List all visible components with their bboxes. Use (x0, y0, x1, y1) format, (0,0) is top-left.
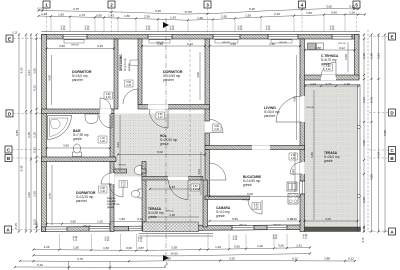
svg-text:2,10: 2,10 (100, 190, 105, 193)
dim row below C.TEHNICA wall (304, 82, 360, 87)
svg-text:4,25: 4,25 (20, 67, 24, 73)
svg-text:2,88: 2,88 (315, 46, 321, 50)
svg-text:4,13: 4,13 (27, 70, 31, 76)
svg-text:HP1,50: HP1,50 (273, 225, 281, 227)
svg-text:0,12: 0,12 (266, 29, 271, 31)
grid bubble B right (368, 155, 396, 162)
room label: TERASA big (324, 151, 340, 163)
svg-text:0,12: 0,12 (187, 42, 193, 46)
svg-text:HP1,00: HP1,00 (83, 226, 91, 228)
dim column left overall (15, 33, 20, 232)
terrace top edge line (305, 84, 361, 86)
wall: interior right (LIVING/BUCATARIE vs TERASA) (300, 39, 305, 232)
terrace bottom edge (305, 227, 361, 232)
room label: C.TEHNICA (321, 54, 339, 66)
svg-text:0,12: 0,12 (349, 5, 355, 9)
wall: DORMITOR2 | LIVING upper (205, 39, 210, 121)
window: DORMITOR1 top (63, 35, 87, 40)
svg-text:1,50: 1,50 (245, 13, 251, 17)
interior dim hol height v (116, 115, 120, 172)
svg-text:0,12: 0,12 (33, 85, 37, 91)
grid bubble C right (368, 147, 396, 154)
eave line above top wall (42, 31, 361, 33)
svg-text:0,12: 0,12 (238, 29, 243, 31)
svg-text:0,70: 0,70 (326, 82, 332, 86)
grid bubble 5 (353, 1, 360, 35)
dim row top outer (37, 4, 359, 15)
svg-text:7,34: 7,34 (377, 152, 381, 158)
door arc: BUCATARIE to terrace (290, 162, 302, 174)
svg-text:6,80: 6,80 (310, 152, 314, 158)
grid bubble 2 (108, 1, 115, 35)
room label: DORMITOR 3 (76, 191, 96, 203)
svg-text:parchet: parchet (72, 78, 83, 82)
window: DORMITOR3 bottom (45, 227, 67, 232)
dim row bottom overall (19, 256, 356, 262)
dim column right mid (370, 33, 374, 232)
svg-text:0,87: 0,87 (138, 246, 144, 250)
window: LIVING top 2 (268, 35, 298, 40)
svg-text:parchet: parchet (76, 199, 87, 203)
door arc: DORMITOR1 (100, 98, 111, 109)
window tick label top x=268 (266, 27, 271, 32)
svg-text:1,43: 1,43 (108, 14, 114, 18)
svg-text:6,02: 6,02 (157, 150, 163, 154)
dim column right fine (362, 33, 366, 232)
section line vertical (165, 18, 167, 258)
room label: BAIE (73, 129, 89, 141)
opening: CAMARA door (250, 196, 263, 200)
svg-text:1,80: 1,80 (119, 217, 125, 221)
svg-text:3,28: 3,28 (33, 191, 37, 197)
svg-text:2,10: 2,10 (193, 188, 198, 191)
interior dim terasa-b width (291, 217, 358, 222)
svg-text:parchet: parchet (163, 78, 174, 82)
svg-text:3,75: 3,75 (77, 257, 83, 261)
interior dim terasa-s width (149, 185, 200, 190)
svg-text:0,12: 0,12 (303, 238, 308, 240)
svg-text:2,48: 2,48 (27, 132, 31, 138)
wall: exterior left (42, 35, 47, 232)
door arc: small TERASA (169, 180, 189, 200)
svg-text:3: 3 (206, 3, 209, 8)
fixture: radiator label box BAIE (98, 136, 107, 143)
svg-text:HP0,90: HP0,90 (156, 42, 164, 44)
wall: DRESSING | DORMITOR2 (138, 39, 142, 105)
svg-text:0,15: 0,15 (13, 32, 18, 35)
axis dashed line x=190 (189, 39, 191, 232)
svg-text:2,40: 2,40 (370, 53, 374, 59)
svg-text:2,10: 2,10 (106, 96, 111, 99)
radiator DORMITOR1 (64, 40, 84, 43)
dim row bottom edge row (14, 263, 165, 269)
svg-text:3,50: 3,50 (63, 144, 69, 148)
svg-text:0,12: 0,12 (137, 217, 143, 221)
opening: BAIE door (100, 109, 111, 114)
svg-text:0,12: 0,12 (138, 241, 143, 243)
door label box: CAMARA (252, 203, 261, 210)
svg-text:5,50: 5,50 (232, 217, 238, 221)
door arc: C.TEHNICA (321, 62, 336, 77)
svg-text:gresie: gresie (107, 205, 115, 209)
svg-text:3,25: 3,25 (229, 256, 235, 260)
svg-text:1,00: 1,00 (100, 140, 105, 143)
door label box: small TERASA (191, 184, 200, 191)
svg-text:3,00: 3,00 (278, 244, 284, 248)
svg-text:2,00: 2,00 (362, 197, 366, 203)
svg-text:9,85: 9,85 (383, 130, 387, 136)
svg-text:HP0,90: HP0,90 (222, 42, 230, 44)
svg-text:1,50: 1,50 (269, 42, 275, 46)
step lines below small terrace (139, 233, 214, 235)
fixture: kitchen sink (287, 182, 297, 191)
svg-text:1,26: 1,26 (257, 244, 263, 248)
interior dim dorm1 height v (48, 55, 52, 105)
svg-text:3,75: 3,75 (48, 193, 52, 199)
interior dim living width (209, 42, 302, 47)
interior dim sbath width (110, 217, 146, 221)
wall: DORMITOR1 | DRESSING (114, 39, 118, 109)
svg-text:1,20: 1,20 (97, 220, 103, 224)
wall: CAMARA top (205, 196, 250, 200)
wall: LIVING bottom (205, 146, 305, 150)
interior dim cteh width (304, 46, 356, 51)
svg-text:0,25: 0,25 (97, 44, 103, 48)
interior dim hol height right (197, 152, 201, 195)
svg-text:2,10: 2,10 (158, 116, 163, 119)
svg-text:1,50: 1,50 (124, 14, 130, 18)
opening: small TERASA door (168, 176, 188, 180)
svg-text:1,26: 1,26 (349, 10, 355, 14)
bottom window tick label x=107 (105, 238, 110, 243)
svg-text:1,43: 1,43 (170, 16, 176, 20)
wall: below C.TEHNICA (300, 75, 359, 80)
door arc: DORMITOR2 (149, 109, 168, 128)
window tick label top x=172 (170, 27, 175, 32)
dim row bottom seg (32, 243, 311, 251)
interior dim dorm2 width (141, 42, 206, 47)
door arc: DORMITOR3 (101, 173, 112, 184)
wall: baie serviciu top (114, 169, 127, 173)
dim column right major (377, 33, 381, 232)
svg-text:0,12: 0,12 (330, 29, 335, 31)
svg-text:0,15: 0,15 (38, 6, 44, 10)
window tick label top x=148 (146, 27, 151, 32)
witness lines top (51, 16, 345, 32)
window tick label top x=240 (238, 27, 243, 32)
door label box: DRESSING (125, 80, 134, 87)
svg-text:HP1,50: HP1,50 (239, 225, 247, 227)
door label box: BUCATARIE terrace (289, 153, 298, 160)
window: DORMITOR2 top (148, 35, 172, 40)
svg-text:gresie: gresie (127, 63, 131, 71)
svg-text:0,12: 0,12 (233, 239, 238, 241)
svg-text:5,00: 5,00 (247, 192, 253, 196)
svg-text:0,12: 0,12 (273, 238, 278, 240)
svg-text:0,15: 0,15 (362, 237, 365, 242)
door label box: DORMITOR2 (156, 112, 165, 119)
svg-text:0,25: 0,25 (35, 222, 39, 228)
svg-text:9,85: 9,85 (15, 130, 19, 136)
svg-text:5: 5 (355, 3, 358, 8)
section arrow bottom (163, 255, 169, 261)
svg-text:1,26: 1,26 (344, 82, 350, 86)
svg-text:3,50: 3,50 (33, 68, 37, 74)
svg-text:1,50: 1,50 (306, 11, 312, 15)
svg-text:gresie: gresie (160, 142, 169, 146)
terrace post bottom (357, 194, 360, 197)
svg-text:3,00: 3,00 (325, 217, 331, 221)
svg-text:1,90: 1,90 (362, 140, 366, 146)
svg-text:0,60: 0,60 (126, 246, 132, 250)
dim column left major (20, 33, 28, 232)
interior dim dorm1 width (46, 44, 116, 50)
room label: DORMITOR 2 (163, 70, 183, 82)
svg-text:gresie: gresie (243, 183, 252, 187)
room label: LIVING (264, 106, 280, 118)
opening: DORMITOR3 door (110, 173, 115, 184)
opening: DORMITOR2 door (148, 104, 168, 109)
svg-text:4,00: 4,00 (196, 72, 200, 78)
svg-text:4,93: 4,93 (293, 96, 297, 102)
svg-text:1,50: 1,50 (73, 246, 79, 250)
svg-text:E: E (390, 35, 393, 40)
wall: small TERASA | CAMARA (203, 180, 208, 227)
svg-text:E: E (8, 37, 11, 42)
wall: DORMITOR1 bottom (42, 109, 115, 114)
interior dim hol width (117, 150, 206, 155)
wall: baie serviciu | small TERASA (142, 162, 146, 228)
floor fill: small TERASA stipple (146, 180, 203, 227)
terrace post top (357, 125, 360, 128)
room label: DORMITOR 1 (72, 70, 92, 82)
interior dim living height v (293, 55, 297, 140)
svg-text:1,26: 1,26 (44, 245, 50, 249)
svg-text:2,10: 2,10 (291, 157, 296, 160)
window: BUCATARIE bottom 1 (232, 225, 254, 230)
svg-text:gresie: gresie (73, 137, 82, 141)
room label: DRESSING (rotated) (119, 54, 131, 71)
opening: LIVING-terrace door (300, 96, 305, 122)
svg-text:0,12: 0,12 (61, 29, 66, 31)
svg-text:gresie: gresie (321, 62, 330, 66)
svg-text:4,93: 4,93 (197, 169, 201, 175)
svg-text:HP0,45: HP0,45 (242, 200, 250, 202)
svg-text:2,28: 2,28 (362, 53, 366, 59)
steps: small terrace bottom hatched (143, 222, 199, 232)
room label: CAMARA (216, 206, 231, 218)
svg-text:2,18: 2,18 (33, 132, 37, 138)
opening: BUCATARIE-terrace door (300, 162, 305, 174)
fixture: washer C.TEHNICA (317, 43, 324, 50)
svg-text:4,00: 4,00 (48, 75, 52, 81)
svg-text:gresie: gresie (324, 159, 333, 163)
window: baie serviciu bottom (128, 226, 142, 231)
svg-text:1,26: 1,26 (41, 12, 47, 16)
fixture: toilet baie serviciu (138, 189, 142, 198)
room label: TERASA small (148, 207, 164, 219)
svg-text:5,40: 5,40 (20, 165, 24, 171)
window tick label top x=63 (61, 27, 66, 32)
svg-text:0,12: 0,12 (73, 240, 78, 242)
svg-text:0,60: 0,60 (331, 10, 337, 14)
svg-text:2,50: 2,50 (230, 42, 236, 46)
fixture: corner bathtub BAIE (48, 116, 72, 140)
bottom window tick label x=75 (73, 237, 78, 242)
radiator DORMITOR2 (149, 40, 170, 43)
roof overhang dashed line right (367, 30, 369, 232)
svg-text:0,76: 0,76 (370, 97, 374, 103)
svg-text:1,50: 1,50 (197, 16, 203, 20)
floor fill: big TERASA stipple (305, 85, 358, 227)
grid bubble D left (6, 110, 42, 117)
window: BUCATARIE right to terrace (300, 181, 305, 194)
grid bubble 3 (204, 1, 211, 35)
opening: C.TEHNICA door (321, 75, 336, 80)
door label box: baie serviciu (119, 181, 128, 188)
door arc: DRESSING (123, 89, 138, 104)
interior dim cteh inner v (344, 42, 348, 72)
svg-text:parchet: parchet (264, 114, 275, 118)
svg-text:2,10: 2,10 (121, 185, 126, 188)
svg-text:0,12: 0,12 (146, 29, 151, 31)
svg-text:5,25: 5,25 (165, 257, 171, 261)
wall: DORMITOR3 | baie serviciu (110, 162, 114, 232)
svg-text:5,15: 5,15 (14, 223, 18, 229)
dim column right overall (383, 33, 387, 232)
door arc: BUCATARIE from HOL (210, 163, 227, 180)
svg-text:0,12: 0,12 (85, 29, 90, 31)
svg-text:HP0,20: HP0,20 (166, 211, 174, 213)
svg-text:1,04: 1,04 (310, 82, 316, 86)
window: DORMITOR3 bottom 2 (89, 226, 110, 231)
svg-text:3,13: 3,13 (362, 97, 366, 103)
fixture: toilet BAIE (73, 152, 82, 157)
grid bubble C left (5, 146, 42, 153)
interior dim bath width (46, 144, 112, 149)
radiator LIVING (215, 40, 238, 43)
wall: exterior top (42, 35, 360, 40)
svg-text:HP0,90: HP0,90 (279, 42, 287, 44)
wall: small TERASA top (142, 177, 203, 181)
svg-text:2,10: 2,10 (126, 84, 131, 87)
interior dim terasa-b height v (310, 90, 314, 220)
room label: baie de serviciu (107, 196, 120, 209)
witness lines bottom (59, 234, 287, 249)
window: BUCATARIE bottom 2 (267, 225, 287, 230)
svg-text:3,38: 3,38 (171, 246, 177, 250)
svg-text:3,02: 3,02 (116, 142, 120, 148)
svg-text:HP0,90: HP0,90 (71, 45, 79, 47)
door arc: CAMARA (248, 200, 262, 214)
interior dim bucat width (209, 192, 302, 197)
interior dim bucat height v (291, 152, 295, 192)
svg-text:1,70: 1,70 (79, 13, 85, 17)
svg-text:gresie: gresie (216, 214, 225, 218)
svg-text:1,50: 1,50 (58, 12, 64, 16)
window: C.TEHNICA top (332, 35, 352, 40)
window tick label top x=332 (330, 27, 335, 32)
svg-text:0,12: 0,12 (362, 226, 366, 232)
interior dim camara width (209, 217, 302, 222)
svg-text:2,10: 2,10 (326, 68, 331, 71)
svg-text:3,38: 3,38 (169, 213, 175, 217)
door label box: DORMITOR3 (99, 186, 108, 193)
dim column left fine (33, 33, 38, 232)
room label: HOL (160, 134, 178, 146)
svg-text:2,36: 2,36 (144, 15, 150, 19)
floor fill: HOL stipple (114, 114, 205, 177)
svg-text:2,50: 2,50 (221, 15, 227, 19)
svg-text:0,12: 0,12 (339, 46, 345, 50)
svg-text:HP0,90: HP0,90 (306, 107, 314, 109)
left corner small labels (14, 222, 39, 229)
svg-text:HP0,90: HP0,90 (118, 165, 126, 167)
svg-text:2,10: 2,10 (274, 12, 280, 16)
svg-text:2,88: 2,88 (324, 257, 330, 261)
svg-text:2,10: 2,10 (254, 207, 259, 210)
svg-text:0,12: 0,12 (170, 29, 175, 31)
opening: DORMITOR1 door (100, 109, 111, 114)
svg-text:3,62: 3,62 (27, 192, 31, 198)
svg-text:3,75: 3,75 (73, 7, 79, 11)
svg-text:0,12: 0,12 (348, 257, 354, 261)
svg-text:3,60: 3,60 (70, 220, 76, 224)
interior dim terasa-s width2 (150, 213, 199, 217)
grid bubble A right (368, 228, 396, 235)
svg-text:HP1,50: HP1,50 (338, 43, 346, 45)
grid bubble D right (368, 109, 396, 116)
door arc: baie serviciu (109, 183, 123, 197)
bottom window tick label x=275 (273, 236, 278, 241)
door label box: DORMITOR1 (104, 92, 113, 99)
fixture: stove BUCATARIE (288, 194, 298, 205)
bottom window tick label x=140 (138, 238, 143, 243)
interior dim dorm2 height v (196, 52, 200, 100)
grid bubble 1 (43, 1, 50, 35)
interior dim dorm3 width (46, 220, 112, 225)
window tick label top x=87 (85, 27, 90, 32)
svg-text:5,25: 5,25 (249, 7, 255, 11)
window: LIVING top 1 (213, 35, 240, 40)
svg-text:1,41: 1,41 (296, 243, 302, 247)
wall: exterior right (C.TEHNICA) (355, 35, 360, 80)
wall: exterior bottom (41, 225, 302, 232)
wall: DORMITOR2 | LIVING lower stub (205, 133, 210, 146)
dim column left mid (27, 33, 32, 232)
radiator DRESSING (130, 60, 138, 66)
svg-text:3,38: 3,38 (169, 185, 175, 189)
dim row bottom total (32, 252, 311, 257)
svg-text:2,93: 2,93 (291, 169, 295, 175)
opening: LIVING opening to kitchen (252, 145, 270, 150)
svg-text:2,00: 2,00 (344, 54, 348, 60)
svg-text:3,00: 3,00 (326, 4, 332, 8)
radiator LIVING 2 (271, 40, 292, 43)
svg-text:0,60: 0,60 (96, 13, 102, 17)
svg-text:2,51: 2,51 (377, 53, 381, 59)
bottom witness line 1 (68, 262, 70, 270)
door arc: BAIE (99, 115, 112, 128)
wall: BAIE bottom (42, 157, 117, 162)
svg-text:2,10: 2,10 (214, 128, 219, 131)
fixture: boiler C.TEHNICA (308, 43, 316, 50)
svg-text:17,55: 17,55 (184, 10, 192, 14)
svg-text:5,25: 5,25 (155, 9, 161, 13)
grid bubble B left (5, 155, 42, 162)
dim row top inner (37, 10, 366, 21)
door arc: LIVING from HOL (210, 120, 223, 133)
